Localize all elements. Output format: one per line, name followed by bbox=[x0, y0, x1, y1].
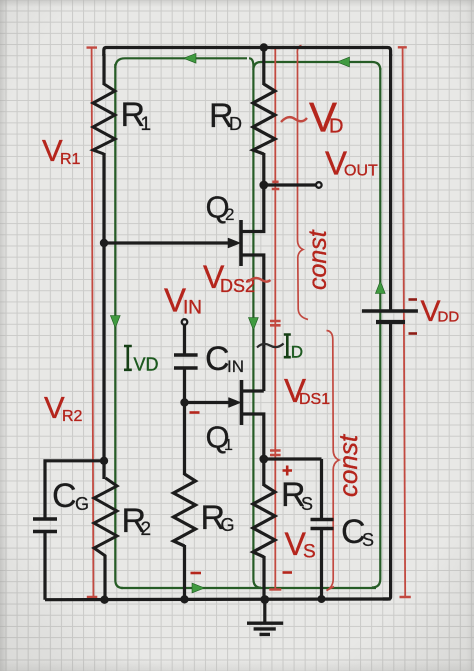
wire RG bottom to rail bbox=[183, 545, 186, 600]
mark dash above VDD battery bbox=[409, 298, 418, 301]
svg-text:const: const bbox=[333, 433, 363, 497]
svg-text:S: S bbox=[362, 530, 374, 550]
svg-text:DD: DD bbox=[438, 309, 460, 326]
measurement line VDD (far right) bbox=[403, 49, 406, 598]
wire CS upper bbox=[320, 459, 323, 520]
wire right branch upper (top rail to battery) bbox=[389, 54, 392, 311]
capacitor CIN plates bbox=[174, 355, 198, 368]
wire green middle vertical (ID path) bbox=[249, 58, 261, 587]
arrow green left on top-left green wire bbox=[184, 53, 197, 63]
ground symbol bbox=[263, 600, 266, 624]
arrow green up on right green wire bbox=[375, 281, 385, 294]
node Vout (junction dot) bbox=[259, 181, 268, 190]
measurement line VD/VDS2/VDS1/VS (x=275) bbox=[274, 48, 276, 590]
mark minus at RG bottom bbox=[191, 572, 202, 575]
transistor Q1 gate bar bbox=[240, 380, 244, 425]
mark minus below Q1 gate node bbox=[190, 411, 200, 414]
node CS bottom on rail (junction dot) bbox=[318, 595, 326, 603]
terminal Vout open circle bbox=[316, 182, 322, 188]
wire RS bottom to rail bbox=[262, 556, 265, 600]
transistor Q2 source lead bbox=[243, 255, 264, 391]
transistor Q1 drain lead bbox=[243, 389, 264, 392]
terminal VIN open circle bbox=[182, 319, 188, 325]
wire bottom rail bbox=[45, 597, 391, 601]
svg-text:1: 1 bbox=[224, 437, 233, 454]
wire left branch lower (R2 to bottom rail) bbox=[103, 555, 106, 600]
battery VDD plates bbox=[362, 309, 418, 312]
wire CIN to gate node and RG bbox=[183, 368, 186, 475]
wire drain branch upper (top rail to RD) bbox=[262, 46, 265, 85]
brace const (lower, beside VDS1+VS) bbox=[327, 331, 340, 591]
svg-text:C: C bbox=[52, 477, 77, 515]
wire Q1 gate from CIN/RG node bbox=[185, 401, 231, 404]
svg-text:S: S bbox=[301, 494, 313, 514]
wire green bottom horizontal bbox=[121, 587, 376, 589]
arrow green left on top-right green wire bbox=[337, 57, 350, 67]
svg-text:IN: IN bbox=[227, 357, 244, 376]
arrow Q2 gate bbox=[228, 238, 241, 248]
wire left branch middle (R1 to R2, through gate node and CG node) bbox=[102, 153, 105, 479]
svg-text:C: C bbox=[205, 340, 230, 378]
svg-text:D: D bbox=[291, 343, 303, 362]
arrow green down on left green wire (IVD) bbox=[110, 316, 120, 329]
svg-text:R2: R2 bbox=[62, 408, 83, 425]
wire Q2 gate from left branch bbox=[104, 241, 230, 244]
brace const (upper, beside VD+VDS2) bbox=[297, 46, 308, 320]
tilde black before ID bbox=[257, 344, 284, 348]
svg-text:R1: R1 bbox=[60, 151, 81, 168]
svg-text:G: G bbox=[221, 515, 235, 535]
wire green top-left horizontal (IVD loop top) bbox=[115, 58, 247, 68]
node top rail / RD (junction dot) bbox=[260, 43, 268, 51]
wire CG top from left branch bbox=[45, 461, 104, 520]
wire RD bottom to Q2 drain, through Vout node bbox=[243, 153, 264, 232]
wire VIN to CIN bbox=[183, 325, 186, 356]
capacitor CS plates bbox=[311, 520, 334, 529]
capacitor CG plates bbox=[33, 519, 57, 532]
node R2 bottom on rail (junction dot) bbox=[100, 596, 108, 604]
node Q1 gate / RG top (junction dot) bbox=[180, 398, 188, 406]
wire top rail bbox=[104, 48, 391, 57]
resistor RG bbox=[174, 474, 196, 546]
svg-text:1: 1 bbox=[141, 114, 152, 135]
resistor RS bbox=[253, 485, 275, 557]
wire CS lower bbox=[320, 529, 323, 601]
tilde red after VDS2 bbox=[248, 278, 270, 282]
svg-text:IN: IN bbox=[183, 298, 202, 319]
node CG top on left branch (junction dot) bbox=[100, 457, 108, 465]
wire green top-right horizontal bbox=[253, 62, 380, 70]
wire left branch upper (top rail to R1) bbox=[102, 54, 105, 85]
label IVD bbox=[124, 346, 132, 370]
svg-text:DS1: DS1 bbox=[299, 391, 330, 408]
resistor RD bbox=[253, 84, 275, 154]
mark minus at VS bottom bbox=[283, 571, 293, 574]
svg-text:G: G bbox=[75, 494, 89, 514]
wire CG bottom to rail bbox=[43, 532, 46, 600]
svg-text:D: D bbox=[229, 114, 242, 134]
arrow Q1 gate bbox=[229, 398, 242, 408]
mark plus at RS top bbox=[283, 466, 293, 476]
svg-text:D: D bbox=[329, 116, 343, 138]
transistor Q1 source lead down to RS bbox=[243, 414, 264, 486]
arrow green down on middle green wire (ID) bbox=[249, 318, 259, 331]
svg-text:const: const bbox=[304, 229, 332, 290]
transistor Q2 gate bar bbox=[239, 220, 243, 266]
node Q1 source / RS top (junction dot) bbox=[259, 455, 268, 464]
node ground on rail (junction dot) bbox=[260, 595, 269, 604]
label ID bbox=[284, 335, 291, 358]
arrow green right on bottom green wire bbox=[192, 583, 205, 593]
wire RS top to CS bbox=[264, 457, 322, 460]
wire green left vertical (IVD loop) bbox=[115, 64, 123, 588]
resistor R2 bbox=[94, 478, 117, 556]
node Q2 gate on left branch (junction dot) bbox=[100, 239, 108, 247]
wire green right vertical (VDD loop) bbox=[372, 68, 380, 588]
svg-text:OUT: OUT bbox=[344, 163, 378, 180]
resistor R1 bbox=[93, 84, 115, 154]
svg-text:VD: VD bbox=[134, 355, 159, 375]
svg-text:DS2: DS2 bbox=[220, 276, 255, 296]
svg-text:S: S bbox=[303, 542, 316, 563]
wire Vout tap bbox=[264, 183, 316, 186]
svg-text:2: 2 bbox=[141, 519, 152, 540]
wire right branch lower (battery to bottom rail) bbox=[383, 322, 391, 599]
svg-text:2: 2 bbox=[225, 205, 234, 224]
measurement line VR1/VR2 (left) bbox=[92, 48, 94, 597]
node RG bottom on rail (junction dot) bbox=[180, 595, 188, 603]
mark dash below VDD battery bbox=[409, 332, 418, 335]
tilde red before VD bbox=[281, 117, 307, 122]
